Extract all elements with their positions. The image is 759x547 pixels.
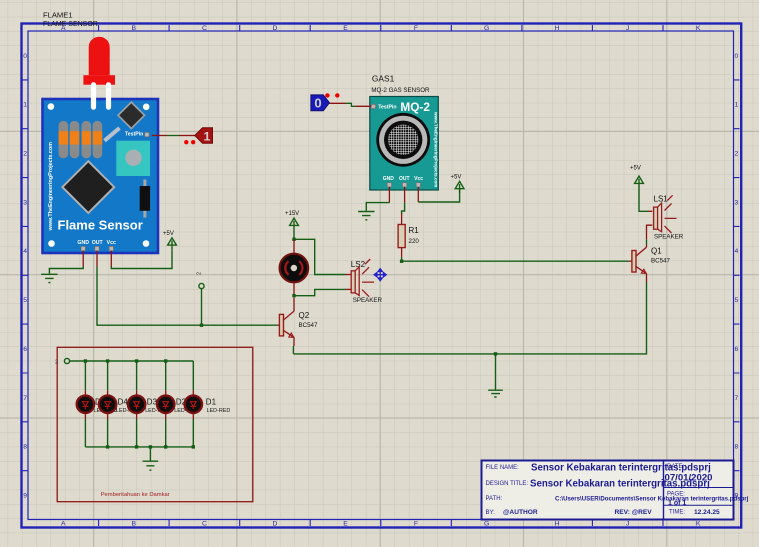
- junctions LED bottom bus: [106, 445, 195, 448]
- svg-text:6: 6: [735, 346, 739, 353]
- frame zone numbers left: [23, 53, 27, 500]
- board pin labels: [77, 240, 116, 246]
- svg-text:SPEAKER: SPEAKER: [654, 233, 684, 240]
- svg-text:Q2: Q2: [299, 311, 310, 320]
- board diagonal trace: [105, 128, 120, 141]
- svg-text:Flame Sensor: Flame Sensor: [58, 217, 143, 232]
- svg-text:F: F: [414, 25, 418, 32]
- svg-text:J: J: [626, 520, 629, 527]
- frame zone numbers right: [735, 53, 739, 500]
- svg-text:F: F: [414, 520, 418, 527]
- LED FLAME1 (red LED on module): [83, 37, 115, 108]
- svg-text:G: G: [484, 25, 489, 32]
- wire R1 to Q1 base: [402, 248, 632, 262]
- svg-text:0: 0: [314, 96, 321, 111]
- wire flame Vcc to +5V: [111, 250, 172, 268]
- junction sounder bottom: [292, 294, 295, 297]
- ground (main rail): [488, 354, 503, 397]
- wire LED columns (cathode side): [85, 413, 193, 447]
- power +5V (flame): [168, 238, 177, 250]
- board small photodiode diamond: [118, 102, 144, 128]
- svg-text:LED-RED: LED-RED: [207, 408, 231, 414]
- node terminal 2 (LED box): [64, 358, 69, 363]
- svg-text:C: C: [202, 520, 207, 527]
- svg-text:BC547: BC547: [299, 322, 318, 329]
- svg-text:+5V: +5V: [451, 175, 462, 181]
- svg-text:D: D: [272, 25, 277, 32]
- svg-text:FLAME1: FLAME1: [43, 11, 73, 20]
- svg-text:0: 0: [23, 53, 27, 60]
- flag 0 (wire label): [311, 95, 330, 111]
- svg-text:2: 2: [23, 151, 27, 158]
- flame sensor module U:FLAME1 board: [43, 99, 159, 253]
- svg-text:www.TheEngineeringProjects.com: www.TheEngineeringProjects.com: [434, 111, 439, 187]
- svg-text:+5V: +5V: [630, 165, 641, 171]
- svg-text:G: G: [484, 520, 489, 527]
- svg-text:FILE NAME:: FILE NAME:: [486, 465, 520, 471]
- LED D3: [128, 396, 169, 414]
- svg-text:4: 4: [23, 248, 27, 255]
- svg-text:R1: R1: [409, 226, 420, 235]
- svg-text:@AUTHOR: @AUTHOR: [503, 509, 538, 516]
- junctions LED top bus: [84, 359, 168, 362]
- svg-text:8: 8: [735, 444, 739, 451]
- power +5V (LS1): [635, 176, 644, 183]
- svg-text:9: 9: [23, 493, 27, 500]
- LED D1: [185, 396, 231, 414]
- svg-text:SPEAKER: SPEAKER: [353, 297, 383, 304]
- move cursor marker: [374, 269, 386, 281]
- svg-text:TestPin: TestPin: [378, 104, 396, 110]
- svg-text:GND: GND: [383, 176, 395, 182]
- svg-text:2: 2: [735, 151, 739, 158]
- svg-text:D1: D1: [206, 397, 217, 406]
- wire flame OUT to Q2 base: [97, 251, 278, 325]
- svg-text:2: 2: [196, 272, 202, 275]
- svg-text:H: H: [555, 520, 560, 527]
- svg-text:TIME:: TIME:: [669, 510, 685, 516]
- svg-text:FLAME SENSOR: FLAME SENSOR: [43, 21, 98, 28]
- svg-text:B: B: [132, 25, 137, 32]
- svg-text:DESIGN TITLE:: DESIGN TITLE:: [486, 481, 529, 487]
- svg-text:Pemberitahuan ke Damkar: Pemberitahuan ke Damkar: [101, 492, 170, 498]
- svg-text:0: 0: [735, 53, 739, 60]
- svg-text:B: B: [132, 520, 137, 527]
- board diode: [143, 180, 146, 218]
- wire GAS1 GND to ground: [366, 187, 389, 211]
- power +5V (GAS1): [455, 181, 464, 193]
- svg-text:www.TheEngineeringProjects.com: www.TheEngineeringProjects.com: [48, 142, 54, 232]
- svg-text:REV: @REV: REV: @REV: [615, 509, 653, 516]
- wire flag 0 to GAS1 TestPin: [329, 103, 371, 106]
- svg-text:D: D: [272, 520, 277, 527]
- svg-text:OUT: OUT: [399, 176, 410, 182]
- wire LED bottom bus: [85, 446, 193, 448]
- svg-text:PAGE:: PAGE:: [667, 491, 685, 497]
- svg-text:LS1: LS1: [654, 194, 669, 203]
- LED D4: [99, 396, 140, 414]
- annotation box (Pemberitahuan ke Damkar): [57, 347, 253, 501]
- svg-text:E: E: [343, 25, 348, 32]
- svg-text:PATH:: PATH:: [486, 496, 503, 502]
- svg-text:TestPin: TestPin: [125, 132, 143, 138]
- pin-end dots near flag 0: [325, 93, 329, 97]
- wire +5V to LS1 top pin: [639, 183, 648, 212]
- svg-text:OUT: OUT: [92, 240, 104, 246]
- wire flame GND to ground: [49, 251, 83, 274]
- sensor mesh circle: [376, 113, 430, 167]
- svg-text:1 of 1: 1 of 1: [668, 500, 686, 507]
- svg-text:4: 4: [735, 248, 739, 255]
- power +15V (sounder): [290, 218, 299, 239]
- svg-text:MQ-2 GAS SENSOR: MQ-2 GAS SENSOR: [371, 87, 430, 94]
- svg-text:6: 6: [23, 346, 27, 353]
- board big sensor diamond: [62, 161, 114, 213]
- wire GAS1 OUT to R1: [402, 187, 405, 225]
- board resistors: [59, 121, 103, 158]
- svg-text:A: A: [61, 520, 66, 527]
- svg-text:1: 1: [204, 129, 211, 143]
- svg-text:7: 7: [735, 395, 739, 402]
- junction OUT/terminal2: [200, 324, 203, 327]
- node terminal 2 (stub above OUT wire): [196, 272, 204, 325]
- LED D5: [77, 396, 118, 414]
- title block: [482, 461, 749, 520]
- frame zone letters bottom: [61, 520, 701, 527]
- board trimmer (teal): [116, 141, 150, 176]
- svg-text:Q1: Q1: [651, 247, 662, 256]
- svg-text:GAS1: GAS1: [372, 74, 395, 84]
- wire LED columns (anode side): [85, 361, 193, 396]
- speaker LS2: [351, 259, 383, 304]
- svg-text:5: 5: [23, 297, 27, 304]
- ground (flame sensor): [41, 274, 57, 282]
- flag 1 (wire label): [195, 128, 213, 144]
- svg-text:3: 3: [735, 199, 739, 206]
- svg-text:BC547: BC547: [651, 258, 670, 265]
- svg-text:Sensor Kebakaran terintergrita: Sensor Kebakaran terintergritas.pdsprj: [530, 479, 710, 490]
- svg-text:C:\Users\USER\Documents\Sensor: C:\Users\USER\Documents\Sensor Kebakaran…: [555, 495, 749, 502]
- svg-text:+15V: +15V: [285, 211, 299, 217]
- svg-text:5: 5: [735, 297, 739, 304]
- svg-text:BY:: BY:: [486, 510, 496, 516]
- sounder (motor/buzzer symbol): [280, 239, 309, 295]
- junction R1 bottom: [400, 260, 403, 263]
- wire Q1 emitter to ground rail: [293, 274, 646, 354]
- wire LS1 bottom pin to Q1 collector: [647, 225, 653, 247]
- transistor Q1 BC547: [632, 247, 671, 274]
- svg-text:J: J: [626, 25, 629, 32]
- svg-text:8: 8: [23, 444, 27, 451]
- svg-text:7: 7: [23, 395, 27, 402]
- svg-text:1: 1: [23, 102, 27, 109]
- svg-text:K: K: [696, 520, 701, 527]
- svg-text:K: K: [696, 25, 701, 32]
- pin-end dots near flag 1: [184, 140, 188, 144]
- junction sounder top: [292, 238, 295, 241]
- wire LED top bus: [70, 360, 194, 362]
- svg-text:Vcc: Vcc: [107, 240, 116, 246]
- gas sensor module GAS1 board: [370, 97, 439, 191]
- wire Q2 collector: [293, 298, 295, 312]
- wire TestPin to flag 1: [152, 135, 195, 137]
- frame zone letters top: [61, 25, 701, 32]
- svg-text:C: C: [202, 25, 207, 32]
- LED D2: [157, 396, 198, 414]
- ground (GAS1): [358, 212, 374, 220]
- svg-text:12.24.25: 12.24.25: [694, 509, 720, 516]
- speaker LS1: [654, 194, 684, 240]
- svg-text:GND: GND: [77, 240, 89, 246]
- wire to box ground: [149, 447, 151, 461]
- ground (LED box): [143, 461, 159, 470]
- wire Q2 emitter to ground rail: [292, 338, 295, 354]
- svg-text:+5V: +5V: [163, 231, 174, 237]
- svg-text:220: 220: [409, 238, 420, 245]
- transistor Q2 BC547: [278, 311, 318, 337]
- svg-text:2: 2: [55, 359, 58, 365]
- wire junction to LS2 bottom pin: [294, 289, 351, 295]
- svg-text:1: 1: [735, 102, 739, 109]
- wire junction to LS2 top pin: [294, 239, 351, 274]
- svg-text:MQ-2: MQ-2: [400, 100, 430, 114]
- svg-text:Vcc: Vcc: [414, 176, 423, 182]
- svg-text:H: H: [555, 25, 560, 32]
- svg-text:3: 3: [23, 199, 27, 206]
- wire GAS1 Vcc to +5V: [418, 187, 459, 202]
- junction ground rail: [494, 352, 497, 355]
- resistor R1: [398, 225, 419, 248]
- svg-text:E: E: [343, 520, 348, 527]
